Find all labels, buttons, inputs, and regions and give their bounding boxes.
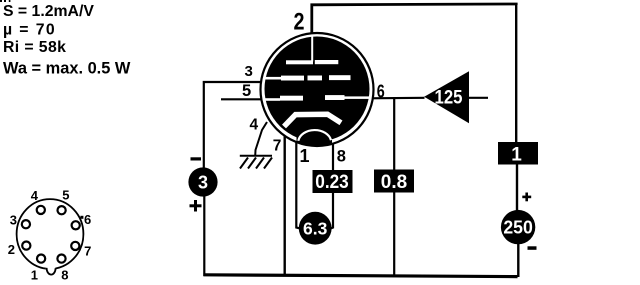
svg-text:0.23: 0.23 [315, 172, 349, 193]
svg-text:125: 125 [435, 86, 463, 108]
svg-text:8: 8 [61, 268, 68, 283]
svg-text:250: 250 [503, 218, 533, 238]
svg-text:3: 3 [245, 63, 253, 80]
svg-text:3: 3 [198, 173, 208, 193]
svg-text:2: 2 [294, 8, 305, 35]
svg-text:1: 1 [31, 268, 38, 283]
svg-text:Wa = max. 0.5 W: Wa = max. 0.5 W [3, 60, 131, 78]
svg-text:5: 5 [62, 188, 69, 203]
svg-text:0.8: 0.8 [381, 172, 407, 193]
svg-text:µ = 70: µ = 70 [3, 22, 56, 39]
svg-text:6: 6 [84, 212, 91, 227]
svg-text:2: 2 [8, 242, 15, 257]
svg-text:S = 1.2mA/V: S = 1.2mA/V [3, 3, 94, 20]
svg-text:6: 6 [377, 81, 385, 102]
svg-text:4: 4 [250, 117, 259, 134]
svg-text:Ri = 58k: Ri = 58k [3, 39, 66, 56]
svg-text:7: 7 [273, 138, 282, 155]
svg-text:5: 5 [242, 82, 251, 100]
svg-text:1: 1 [511, 145, 522, 166]
svg-text:4: 4 [31, 188, 39, 203]
svg-text:7: 7 [84, 244, 91, 259]
svg-text:8: 8 [337, 148, 346, 166]
svg-text:3: 3 [10, 213, 17, 228]
svg-text:6.3: 6.3 [303, 219, 328, 239]
svg-text:1: 1 [300, 146, 310, 166]
